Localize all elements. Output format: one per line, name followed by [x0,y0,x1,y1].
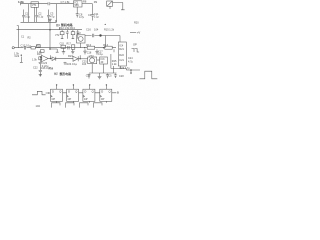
svg-text:R15 1.2k: R15 1.2k [104,28,115,31]
svg-text:C26 0.47μ: C26 0.47μ [41,67,53,70]
svg-text:CP: CP [52,97,56,101]
svg-text:0.1μ: 0.1μ [38,15,44,19]
svg-text:104: 104 [82,63,87,66]
svg-text:R8: R8 [83,0,87,4]
svg-text:CP: CP [84,97,88,101]
svg-text:D: D [68,90,70,94]
svg-text:R24 0.1μ: R24 0.1μ [67,62,78,66]
svg-text:D: D [84,90,86,94]
svg-text:Q: Q [92,90,94,94]
svg-text:R12 1.5k R13: R12 1.5k R13 [59,26,75,30]
svg-text:CP: CP [68,97,72,101]
svg-text:C7 1.5k: C7 1.5k [61,0,71,4]
svg-text:R22: R22 [119,54,124,57]
svg-text:555: 555 [75,4,80,7]
svg-text:C15: C15 [60,43,65,46]
svg-text:C12 0.1μ: C12 0.1μ [21,43,32,47]
svg-text:D: D [101,90,103,94]
svg-text:R13: R13 [86,43,91,47]
svg-text:D: D [52,90,54,94]
svg-text:Q: Q [75,90,77,94]
svg-text:47μ: 47μ [50,15,55,19]
svg-text:C9: C9 [88,13,92,17]
svg-text:1.2k: 1.2k [112,63,117,66]
svg-text:C22: C22 [33,67,38,70]
svg-text:4.7μ: 4.7μ [79,15,85,19]
svg-text:整形电路: 整形电路 [60,71,72,76]
svg-text:4.7μ: 4.7μ [128,61,133,64]
svg-text:C26 4.7μ: C26 4.7μ [120,67,131,70]
svg-text:104: 104 [36,104,41,108]
svg-text:Q: Q [59,90,61,94]
svg-text:图2: 图2 [54,72,59,76]
svg-text:C22: C22 [15,55,20,58]
svg-text:OP: OP [133,42,137,46]
svg-text:IC2: IC2 [77,32,81,35]
svg-text:R9: R9 [94,0,98,4]
svg-text:CP: CP [101,97,105,101]
svg-text:+V: +V [137,31,141,35]
svg-text:R17: R17 [67,43,72,46]
svg-text:104: 104 [94,28,99,32]
svg-text:VT2: VT2 [55,34,60,37]
svg-text:1.5k: 1.5k [18,0,24,4]
svg-text:1.5k: 1.5k [32,59,37,62]
svg-text:0.1μ: 0.1μ [94,15,100,19]
svg-text:R21: R21 [119,48,124,51]
svg-text:R11: R11 [36,44,41,48]
svg-text:C16: C16 [86,28,91,32]
svg-text:R23: R23 [68,54,73,58]
svg-text:R20: R20 [134,22,139,25]
svg-text:C27: C27 [86,75,91,78]
svg-text:▲: ▲ [104,23,106,26]
svg-text:C21: C21 [119,59,124,62]
svg-text:C28: C28 [119,75,124,78]
svg-text:Q: Q [109,90,111,94]
svg-text:R14: R14 [103,43,108,47]
svg-text:B: B [117,91,119,95]
svg-text:R: R [55,19,57,23]
svg-text:VT1: VT1 [32,4,37,7]
svg-text:VT3: VT3 [89,54,94,58]
svg-text:0.1μ: 0.1μ [25,15,31,19]
svg-text:0.1μ: 0.1μ [98,53,103,56]
